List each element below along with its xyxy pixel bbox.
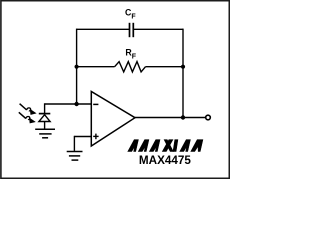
junction dot (RF right)	[181, 65, 185, 69]
wire: photodiode bottom lead	[44, 122, 46, 129]
wire: output	[135, 117, 206, 119]
MAXIM logo	[128, 140, 203, 152]
junction dot (inverting input)	[74, 102, 78, 106]
capacitor C_F plates	[130, 23, 134, 37]
ground (+ input)	[67, 152, 83, 161]
light arrow 1	[20, 104, 36, 115]
wire: CF top right segment	[133, 28, 183, 30]
photodiode D1 anode triangle	[39, 115, 50, 122]
photodiode D1 cathode bar	[39, 113, 51, 115]
wire: photodiode top lead	[44, 103, 46, 113]
junction dot (RF left)	[75, 65, 79, 69]
wire: left feedback vertical	[76, 29, 78, 104]
wire: RF left lead	[77, 66, 115, 68]
ground (photodiode)	[35, 129, 55, 138]
wire: CF top left segment	[77, 28, 130, 30]
resistor R_F	[115, 62, 146, 72]
wire: right feedback vertical	[182, 29, 184, 118]
output terminal	[206, 115, 211, 120]
wire: non-inverting input	[74, 136, 91, 138]
wire: ground lead of + input	[73, 136, 75, 151]
border frame	[1, 1, 229, 179]
wire: RF right lead	[146, 66, 184, 68]
op-amp minus sign	[93, 103, 98, 105]
op-amp plus sign	[93, 134, 98, 140]
junction dot (output)	[181, 115, 185, 119]
wire: inverting input	[45, 103, 92, 105]
light arrow 2	[19, 112, 35, 123]
svg-text:MAX4475: MAX4475	[139, 154, 191, 167]
op-amp U1	[91, 92, 135, 147]
